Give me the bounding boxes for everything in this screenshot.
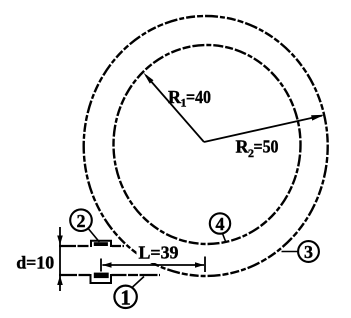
dimension L: line bbox=[102, 264, 204, 266]
callout circle 1 bbox=[114, 277, 144, 310]
radius arrow R2 bbox=[204, 115, 325, 142]
dimension L: right tick bbox=[204, 257, 206, 273]
svg-text:2: 2 bbox=[77, 211, 86, 231]
label R1=40 bbox=[168, 87, 211, 110]
chip component 1 bbox=[94, 273, 109, 279]
svg-text:d=10: d=10 bbox=[16, 253, 54, 273]
mask behind L=39 label bbox=[137, 251, 163, 264]
dimension L: right arrowhead bbox=[195, 262, 204, 267]
dimension L: left tick bbox=[100, 259, 102, 272]
dimension d: down arrowhead bbox=[57, 236, 63, 246]
outer ring (radius R2) bbox=[84, 16, 328, 276]
label R2=50 bbox=[236, 137, 279, 161]
chip component 2 bbox=[94, 242, 108, 246]
svg-text:L=39: L=39 bbox=[139, 243, 179, 263]
svg-text:=50: =50 bbox=[254, 137, 279, 157]
dimension L: left arrowhead bbox=[102, 262, 111, 267]
svg-text:4: 4 bbox=[216, 214, 225, 234]
top feed strip line bbox=[59, 245, 124, 247]
dimension d: up arrowhead bbox=[57, 276, 63, 286]
svg-text:3: 3 bbox=[304, 242, 313, 262]
dimension d: vertical line bbox=[59, 227, 61, 291]
bottom feed strip line bbox=[59, 274, 160, 276]
inner ring (radius R1) bbox=[114, 45, 301, 244]
callout circle 4 bbox=[210, 213, 230, 241]
svg-text:=40: =40 bbox=[186, 87, 211, 107]
svg-text:1: 1 bbox=[120, 285, 131, 309]
callout circle 3 bbox=[282, 241, 319, 262]
bottom strip tab bbox=[91, 274, 112, 283]
radius arrow R1 bbox=[144, 73, 205, 142]
callout circle 2 bbox=[70, 209, 99, 242]
top strip tab bbox=[91, 241, 111, 247]
